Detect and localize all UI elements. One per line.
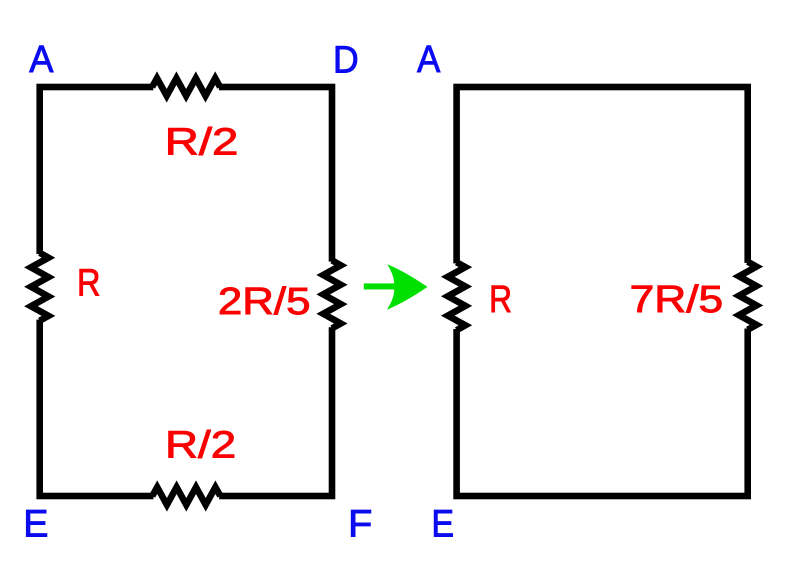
svg-text:R/2: R/2 bbox=[165, 424, 236, 467]
wire: right circuit loop A-E bbox=[457, 87, 748, 496]
svg-text:E: E bbox=[431, 503, 454, 546]
resistor R (left side of left circuit) bbox=[31, 253, 49, 321]
svg-text:7R/5: 7R/5 bbox=[630, 278, 724, 321]
svg-text:R/2: R/2 bbox=[165, 121, 239, 164]
svg-text:2R/5: 2R/5 bbox=[218, 280, 311, 323]
resistor 2R/5 (right side of left circuit) bbox=[323, 260, 341, 328]
svg-text:R: R bbox=[489, 278, 512, 321]
resistor R/2 (top, between A and D) bbox=[152, 78, 220, 96]
wire: left circuit loop A-D-F-E bbox=[40, 87, 332, 496]
svg-text:A: A bbox=[29, 38, 54, 81]
svg-text:F: F bbox=[348, 502, 372, 545]
resistor R/2 (bottom, between E and F) bbox=[152, 487, 220, 505]
svg-text:E: E bbox=[23, 502, 48, 545]
arrow: green equivalence arrow bbox=[364, 264, 428, 310]
svg-text:R: R bbox=[77, 261, 101, 304]
resistor R (left side of right circuit) bbox=[448, 262, 466, 330]
resistor 7R/5 (right side of right circuit) bbox=[739, 262, 757, 330]
svg-text:D: D bbox=[333, 38, 359, 81]
svg-text:A: A bbox=[417, 38, 441, 81]
